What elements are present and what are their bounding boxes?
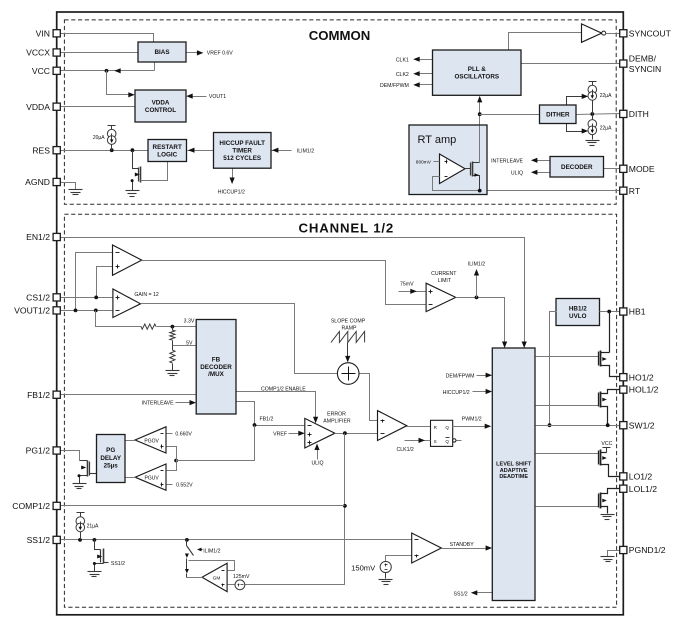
svg-text:AMPLIFIER: AMPLIFIER [323, 419, 351, 425]
svg-text:LOL1/2: LOL1/2 [629, 484, 657, 494]
svg-text:RAMP: RAMP [342, 326, 358, 332]
svg-text:CURRENT: CURRENT [431, 271, 457, 277]
svg-text:VOUT1/2: VOUT1/2 [14, 306, 50, 316]
svg-text:PGUV: PGUV [145, 476, 160, 482]
svg-text:22µA: 22µA [600, 93, 612, 99]
svg-text:HO1/2: HO1/2 [629, 372, 654, 382]
svg-text:512 CYCLES: 512 CYCLES [223, 155, 261, 162]
svg-text:HOL1/2: HOL1/2 [629, 385, 659, 395]
svg-text:RT amp: RT amp [418, 134, 457, 146]
svg-text:EN1/2: EN1/2 [26, 232, 50, 242]
svg-text:ULIQ: ULIQ [311, 461, 323, 467]
svg-text:DEADTIME: DEADTIME [499, 474, 528, 480]
svg-text:HICCUP1/2: HICCUP1/2 [443, 390, 470, 396]
svg-text:125mV: 125mV [233, 574, 250, 580]
svg-text:COMMON: COMMON [309, 28, 371, 43]
svg-text:DEM/FPWM: DEM/FPWM [446, 374, 475, 380]
svg-text:LO1/2: LO1/2 [629, 472, 653, 482]
svg-text:LEVEL SHIFT: LEVEL SHIFT [496, 462, 532, 468]
svg-text:LOGIC: LOGIC [157, 152, 177, 159]
svg-text:DEM/FPWM: DEM/FPWM [380, 83, 409, 89]
svg-text:SS1/2: SS1/2 [27, 535, 51, 545]
svg-text:OSCILLATORS: OSCILLATORS [455, 74, 500, 81]
svg-text:INTERLEAVE: INTERLEAVE [142, 401, 174, 407]
svg-text:CONTROL: CONTROL [145, 107, 176, 114]
svg-text:DELAY: DELAY [100, 455, 122, 462]
svg-text:PLL &: PLL & [468, 66, 487, 73]
svg-text:DITH: DITH [629, 109, 649, 119]
svg-text:ADAPTIVE: ADAPTIVE [500, 468, 528, 474]
svg-text:CHANNEL 1/2: CHANNEL 1/2 [299, 221, 395, 236]
svg-text:MODE: MODE [629, 164, 655, 174]
svg-text:PG1/2: PG1/2 [26, 446, 51, 456]
svg-text:DECODER: DECODER [561, 164, 593, 171]
svg-text:HB1: HB1 [629, 307, 646, 317]
svg-text:DITHER: DITHER [546, 112, 570, 119]
svg-text:0.660V: 0.660V [175, 431, 192, 437]
svg-text:/MUX: /MUX [208, 371, 225, 378]
svg-text:5V: 5V [186, 340, 193, 346]
svg-text:Q: Q [445, 439, 449, 444]
svg-text:BIAS: BIAS [154, 49, 169, 56]
svg-text:VOUT1: VOUT1 [209, 94, 226, 100]
svg-text:25µs: 25µs [104, 463, 119, 470]
svg-text:SS1/2: SS1/2 [454, 591, 468, 597]
svg-text:INTERLEAVE: INTERLEAVE [491, 159, 523, 165]
svg-text:VDDA: VDDA [152, 100, 170, 107]
svg-text:75mV: 75mV [400, 282, 414, 288]
svg-text:COMP1/2 ENABLE: COMP1/2 ENABLE [261, 386, 306, 392]
svg-text:22µA: 22µA [600, 126, 612, 132]
svg-text:VCC: VCC [601, 441, 612, 447]
svg-text:CLK1: CLK1 [396, 57, 409, 63]
svg-text:21µA: 21µA [87, 524, 99, 530]
svg-text:SYNCOUT: SYNCOUT [629, 28, 672, 38]
svg-text:ILIM1/2: ILIM1/2 [468, 262, 485, 268]
svg-text:STANDBY: STANDBY [450, 542, 475, 548]
svg-text:CLK1/2: CLK1/2 [397, 447, 414, 453]
svg-text:AGND: AGND [25, 177, 50, 187]
svg-text:SW1/2: SW1/2 [629, 420, 655, 430]
svg-text:HICCUP1/2: HICCUP1/2 [218, 190, 245, 196]
svg-text:ILIM1/2: ILIM1/2 [297, 148, 314, 154]
svg-text:FB: FB [212, 357, 221, 364]
svg-text:SS1/2: SS1/2 [111, 561, 125, 567]
svg-text:PGND1/2: PGND1/2 [629, 545, 666, 555]
svg-text:S: S [434, 439, 437, 444]
svg-text:VIN: VIN [36, 28, 50, 38]
svg-text:3.3V: 3.3V [184, 319, 195, 325]
svg-text:CLK2: CLK2 [396, 72, 409, 78]
svg-text:DECODER: DECODER [200, 364, 232, 371]
svg-text:VREF 0.6V: VREF 0.6V [207, 51, 233, 57]
svg-text:VDDA: VDDA [26, 102, 50, 112]
svg-text:HICCUP FAULT: HICCUP FAULT [219, 140, 265, 147]
svg-text:CS1/2: CS1/2 [26, 293, 50, 303]
svg-text:PGOV: PGOV [144, 438, 159, 444]
svg-text:ULIQ: ULIQ [511, 170, 523, 176]
svg-text:LIMIT: LIMIT [438, 278, 452, 284]
svg-text:RT: RT [629, 186, 641, 196]
svg-text:20µA: 20µA [93, 135, 105, 141]
svg-text:GAIN = 12: GAIN = 12 [134, 292, 158, 298]
svg-text:UVLO: UVLO [569, 313, 587, 320]
svg-text:RES: RES [32, 145, 50, 155]
svg-text:DEMB/: DEMB/ [629, 54, 657, 64]
svg-text:SLOPE COMP: SLOPE COMP [331, 318, 366, 324]
svg-text:800mV: 800mV [416, 159, 432, 165]
svg-text:FB1/2: FB1/2 [260, 416, 274, 422]
svg-text:TIMER: TIMER [232, 148, 252, 155]
svg-text:PWM1/2: PWM1/2 [462, 416, 482, 422]
svg-text:ERROR: ERROR [327, 411, 346, 417]
svg-text:0.552V: 0.552V [176, 483, 193, 489]
svg-text:150mV: 150mV [351, 564, 376, 573]
svg-text:GM: GM [213, 575, 221, 581]
svg-text:VCC: VCC [32, 66, 50, 76]
svg-text:Q: Q [445, 425, 449, 430]
svg-text:COMP1/2: COMP1/2 [12, 501, 50, 511]
svg-text:VREF: VREF [273, 431, 287, 437]
svg-text:VCCX: VCCX [26, 48, 50, 58]
svg-text:HB1/2: HB1/2 [569, 306, 587, 313]
svg-text:ILIM1/2: ILIM1/2 [203, 549, 220, 555]
svg-text:PG: PG [106, 447, 115, 454]
svg-text:SYNCIN: SYNCIN [629, 64, 661, 74]
svg-text:FB1/2: FB1/2 [27, 390, 50, 400]
svg-text:RESTART: RESTART [153, 144, 182, 151]
